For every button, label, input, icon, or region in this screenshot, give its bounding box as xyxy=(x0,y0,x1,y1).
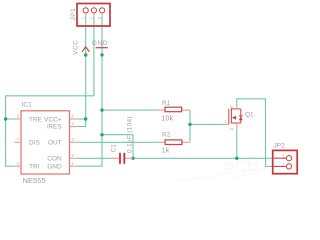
connector JP1 xyxy=(77,4,110,27)
svg-text:1: 1 xyxy=(80,16,85,19)
pin VCC+ 8 xyxy=(70,118,78,120)
pin CON 5 xyxy=(70,157,78,159)
svg-text:OUT: OUT xyxy=(48,140,62,147)
svg-text:C1: C1 xyxy=(111,144,118,153)
junction node GND symbol xyxy=(100,53,103,56)
pin DIS 7 xyxy=(14,141,21,143)
wire: VCC branch to pin8 xyxy=(78,118,86,120)
svg-text:R1: R1 xyxy=(162,100,171,107)
svg-text:3: 3 xyxy=(72,137,75,142)
svg-text:VCC: VCC xyxy=(73,40,80,55)
svg-text:6: 6 xyxy=(17,114,20,119)
junction node left rail pin6 xyxy=(4,117,7,120)
svg-text:Q1: Q1 xyxy=(245,111,254,118)
wire: R1 right vertical to gate node xyxy=(189,110,191,124)
resistor R2 xyxy=(158,140,190,145)
svg-text:4: 4 xyxy=(72,121,75,126)
svg-text:10k: 10k xyxy=(161,113,173,122)
transistor Q1 MOSFET xyxy=(223,103,243,130)
wire: GND branch to C1 right xyxy=(102,135,133,159)
junction node C1 right xyxy=(131,157,134,160)
watermark xyxy=(173,155,265,182)
wire: R2 right vertical to gate node xyxy=(189,124,191,141)
wire: GND net JP1 pin3 down xyxy=(78,17,102,167)
junction node GND-R1 xyxy=(100,108,103,111)
pin GND 1 xyxy=(70,165,78,167)
wire: Q1 source down to GND wire xyxy=(236,130,238,158)
svg-text:TRI: TRI xyxy=(29,163,40,170)
svg-text:3: 3 xyxy=(97,16,102,19)
IC IC1 NE555 timer box xyxy=(21,111,70,174)
connector JP2 xyxy=(273,150,298,173)
svg-text:0.1uF (104): 0.1uF (104) xyxy=(126,116,133,153)
svg-text:1: 1 xyxy=(224,119,227,124)
supply VCC symbol xyxy=(82,47,89,52)
svg-text:2: 2 xyxy=(17,161,20,166)
svg-text:NE555: NE555 xyxy=(23,176,46,184)
pin TRI 2 xyxy=(14,165,21,167)
wire: TRE pin6 to left rail xyxy=(6,118,15,120)
junction node gate xyxy=(188,123,191,126)
pin TRE 6 xyxy=(14,118,21,120)
svg-text:2: 2 xyxy=(89,16,94,19)
wire: VCC net JP1 pin1 down xyxy=(78,17,86,127)
svg-text:TRE: TRE xyxy=(29,116,43,123)
svg-text:7: 7 xyxy=(17,137,20,142)
svg-text:JP1: JP1 xyxy=(70,8,77,21)
wire: CON pin5 to C1 left xyxy=(78,157,110,159)
svg-text:1: 1 xyxy=(72,161,75,166)
svg-text:5: 5 xyxy=(72,153,75,158)
svg-text:GND: GND xyxy=(47,163,62,170)
svg-text:GND: GND xyxy=(92,40,108,47)
wire: GND to R1 xyxy=(102,109,157,111)
svg-text:CON: CON xyxy=(47,155,62,162)
junction node VCC symbol xyxy=(84,53,87,56)
svg-text:2: 2 xyxy=(229,105,234,108)
svg-text:8: 8 xyxy=(72,114,75,119)
svg-text:DIS: DIS xyxy=(29,140,41,147)
wire: gate node to Q1 gate xyxy=(190,123,223,125)
resistor R1 xyxy=(157,107,190,112)
junction node source-GND xyxy=(235,157,238,160)
junction node GND-C1 branch xyxy=(100,133,103,136)
svg-text:3: 3 xyxy=(229,127,234,130)
svg-text:R2: R2 xyxy=(162,132,171,139)
svg-text:IC1: IC1 xyxy=(22,102,32,109)
wire: GND long wire C1 to JP2 pin1 xyxy=(133,157,273,159)
svg-text:1k: 1k xyxy=(161,146,169,155)
junction node VCC pin8 xyxy=(84,117,87,120)
ground GND symbol xyxy=(96,47,108,49)
capacitor C1 xyxy=(110,153,133,164)
wire: THR/TRI net pin2 JP1 down xyxy=(6,17,94,167)
svg-text:/RES: /RES xyxy=(47,123,63,130)
pin /RES 4 xyxy=(70,126,78,128)
wire: Q1 drain up and to JP2 pin2 xyxy=(237,99,273,167)
pin OUT 3 xyxy=(70,141,78,143)
svg-text:JP2: JP2 xyxy=(274,143,286,150)
wire: OUT pin3 to R2 xyxy=(78,141,158,143)
svg-text:VCC+: VCC+ xyxy=(44,116,62,123)
